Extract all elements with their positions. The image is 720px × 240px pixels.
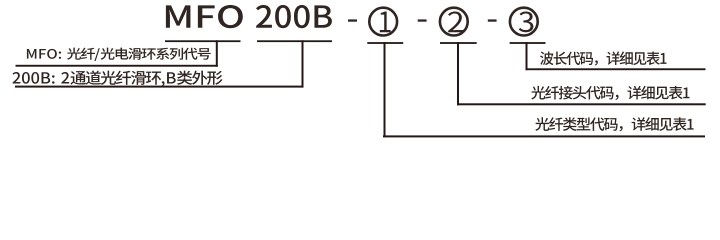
hyphen 1 between 200B and circled 1 bbox=[348, 19, 357, 21]
right row 3 text: fiber type code, see table 1 bbox=[535, 117, 693, 131]
circled number 3 : circle bbox=[510, 8, 538, 36]
title text MFO bbox=[166, 5, 243, 28]
vertical connector from circled 2 to connector-code rule bbox=[457, 42, 459, 105]
vertical connector from 200B underline to row2 rule bbox=[302, 40, 304, 87]
underline under circled 3 bbox=[510, 42, 546, 44]
right row 2 underline rule bbox=[457, 103, 706, 105]
right row 1 text: wavelength code, see table 1 bbox=[540, 51, 666, 65]
left row 2 underline rule bbox=[15, 86, 304, 88]
left row 2 text: 200B: 2-channel fiber slip ring, B-type shape bbox=[13, 70, 223, 86]
circled number 2 : digit bbox=[448, 11, 463, 32]
underline under MFO bbox=[165, 40, 241, 42]
hyphen 2 between circled 1 and circled 2 bbox=[418, 19, 427, 21]
underline under 200B bbox=[257, 40, 332, 42]
circled number 1 : digit bbox=[380, 12, 391, 33]
circled number 2 : circle bbox=[440, 8, 468, 36]
vertical connector from circled 3 to wavelength rule bbox=[526, 42, 528, 70]
right row 2 text: fiber connector code, see table 1 bbox=[531, 86, 689, 100]
right row 3 underline rule bbox=[383, 135, 705, 137]
underline under circled 1 bbox=[367, 42, 403, 44]
title text 200B bbox=[256, 5, 332, 28]
hyphen 3 between circled 2 and circled 3 bbox=[488, 19, 497, 21]
left row 1 underline rule bbox=[16, 65, 218, 67]
vertical connector from MFO underline to row1 rule bbox=[216, 40, 218, 66]
underline under circled 2 bbox=[440, 42, 477, 44]
vertical connector from circled 1 to fiber-type rule bbox=[384, 42, 386, 137]
circled number 1 : circle bbox=[369, 8, 397, 36]
right row 1 underline rule bbox=[526, 68, 706, 70]
circled number 3 : digit bbox=[519, 11, 534, 32]
left row 1 text: MFO: fiber/photoelectric slip ring series code bbox=[27, 48, 211, 61]
